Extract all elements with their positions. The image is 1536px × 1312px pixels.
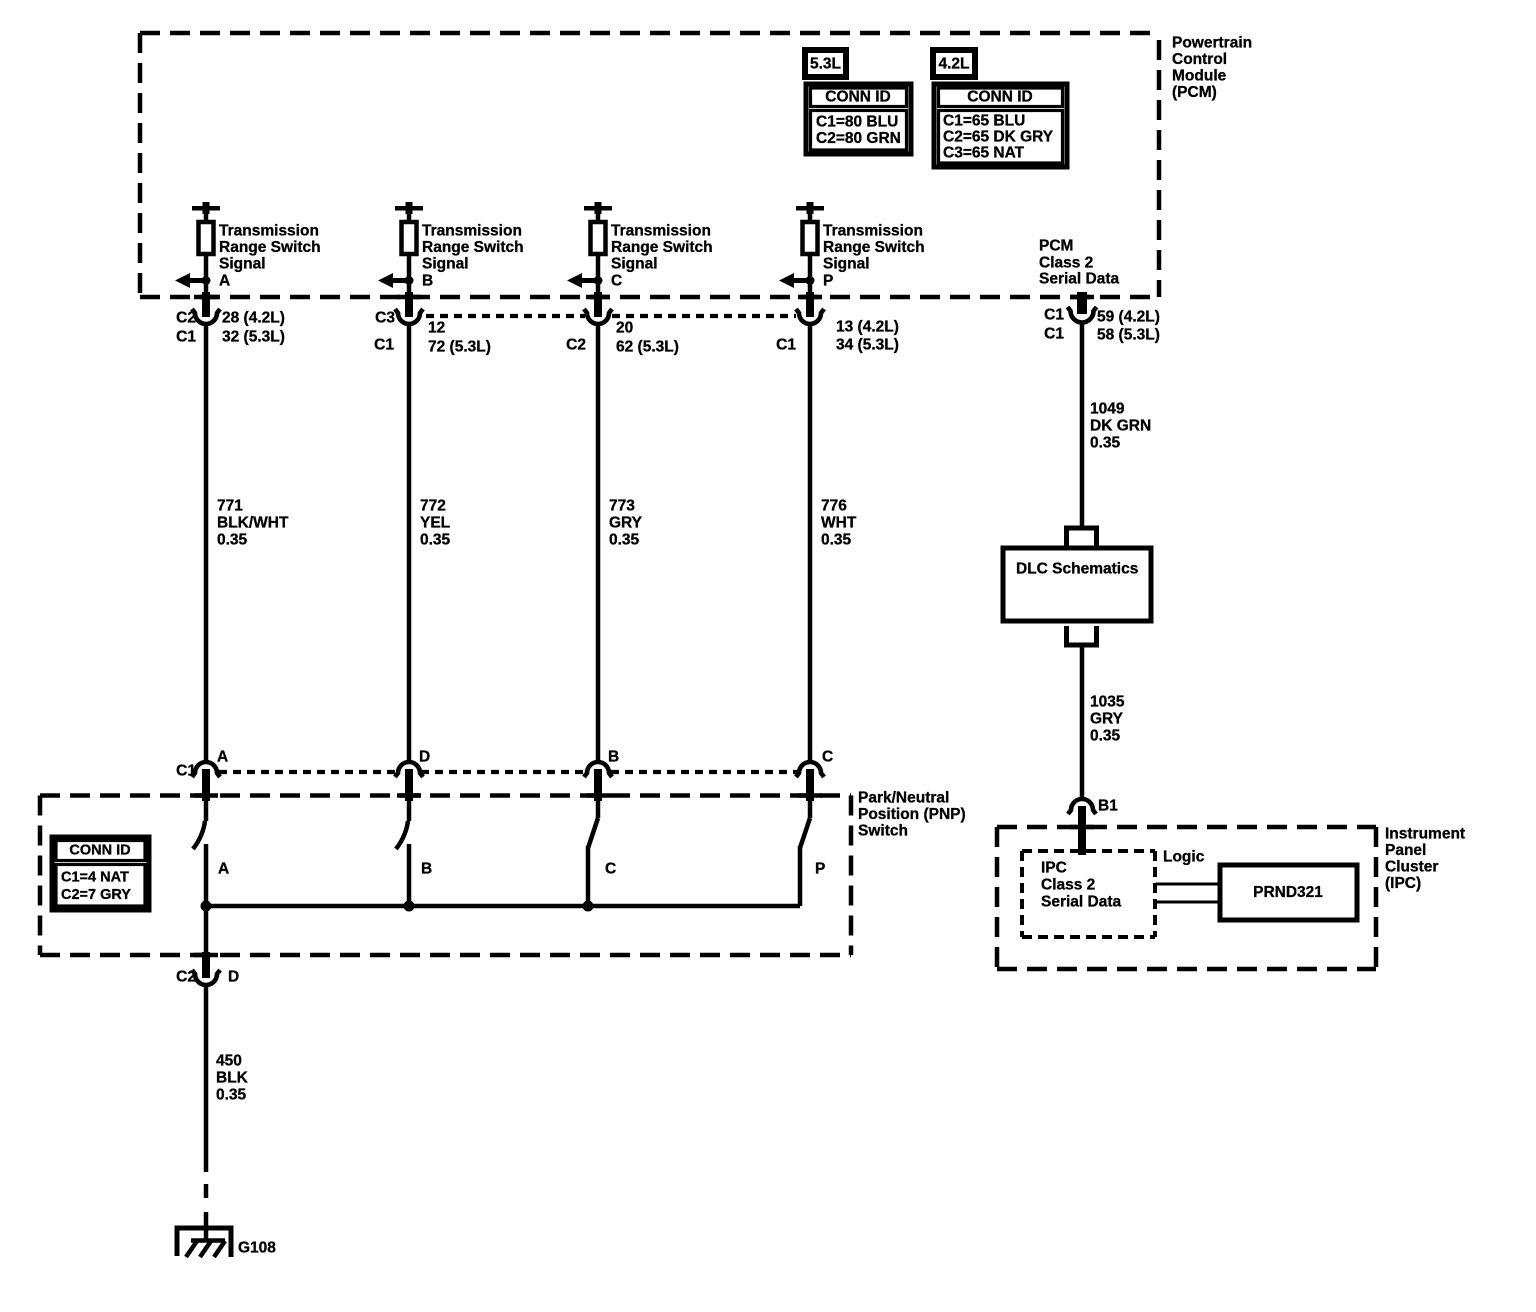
svg-text:0.35: 0.35 — [420, 532, 451, 549]
svg-text:P: P — [815, 861, 825, 878]
svg-text:YEL: YEL — [420, 515, 450, 532]
svg-text:B: B — [608, 749, 619, 766]
svg-text:Powertrain: Powertrain — [1172, 35, 1252, 52]
svg-text:(IPC): (IPC) — [1385, 875, 1421, 892]
svg-text:776: 776 — [821, 498, 847, 515]
svg-text:0.35: 0.35 — [216, 1087, 247, 1104]
svg-text:1049: 1049 — [1090, 401, 1125, 418]
svg-text:C1: C1 — [1044, 326, 1064, 343]
svg-text:A: A — [218, 861, 229, 878]
svg-text:C1: C1 — [1044, 307, 1064, 324]
svg-text:4.2L: 4.2L — [938, 56, 969, 73]
svg-text:C2=7 GRY: C2=7 GRY — [61, 887, 131, 903]
svg-text:Transmission: Transmission — [823, 223, 923, 240]
svg-text:C1: C1 — [176, 329, 196, 346]
svg-text:Class 2: Class 2 — [1041, 877, 1095, 894]
svg-text:PRND321: PRND321 — [1253, 884, 1323, 901]
svg-text:C2=65 DK GRY: C2=65 DK GRY — [943, 129, 1054, 146]
svg-text:62 (5.3L): 62 (5.3L) — [616, 339, 679, 356]
svg-text:A: A — [217, 749, 228, 766]
svg-text:Logic: Logic — [1163, 849, 1205, 866]
svg-text:GRY: GRY — [609, 515, 643, 532]
svg-text:Position (PNP): Position (PNP) — [858, 806, 966, 823]
svg-text:Transmission: Transmission — [611, 223, 711, 240]
svg-text:P: P — [823, 272, 833, 289]
svg-text:C2=80 GRN: C2=80 GRN — [816, 130, 901, 147]
svg-text:Range Switch: Range Switch — [823, 239, 925, 256]
svg-text:WHT: WHT — [821, 515, 857, 532]
svg-text:Range Switch: Range Switch — [611, 239, 713, 256]
svg-text:C: C — [822, 749, 833, 766]
svg-text:Module: Module — [1172, 68, 1227, 85]
svg-text:20: 20 — [616, 320, 633, 337]
svg-text:0.35: 0.35 — [609, 532, 640, 549]
svg-text:Serial Data: Serial Data — [1041, 894, 1122, 911]
svg-text:0.35: 0.35 — [1090, 435, 1121, 452]
svg-text:58 (5.3L): 58 (5.3L) — [1097, 327, 1160, 344]
svg-text:32 (5.3L): 32 (5.3L) — [222, 329, 285, 346]
svg-text:5.3L: 5.3L — [810, 56, 841, 73]
svg-text:13 (4.2L): 13 (4.2L) — [836, 319, 899, 336]
svg-text:0.35: 0.35 — [821, 532, 852, 549]
svg-text:28 (4.2L): 28 (4.2L) — [222, 310, 285, 327]
svg-text:CONN ID: CONN ID — [825, 89, 890, 106]
svg-text:CONN ID: CONN ID — [69, 843, 130, 859]
svg-text:BLK/WHT: BLK/WHT — [217, 515, 289, 532]
svg-text:B: B — [421, 861, 432, 878]
svg-text:D: D — [228, 969, 239, 986]
svg-text:G108: G108 — [238, 1240, 276, 1257]
svg-text:C2: C2 — [176, 310, 196, 327]
svg-text:34 (5.3L): 34 (5.3L) — [836, 337, 899, 354]
svg-text:C1=80 BLU: C1=80 BLU — [816, 114, 898, 131]
svg-text:72 (5.3L): 72 (5.3L) — [428, 339, 491, 356]
svg-text:Signal: Signal — [219, 256, 266, 273]
svg-text:A: A — [219, 272, 230, 289]
svg-text:B: B — [422, 272, 433, 289]
svg-text:Signal: Signal — [823, 256, 870, 273]
svg-text:Park/Neutral: Park/Neutral — [858, 790, 949, 807]
svg-text:C: C — [611, 272, 622, 289]
svg-text:C3: C3 — [375, 310, 395, 327]
svg-text:(PCM): (PCM) — [1172, 84, 1217, 101]
svg-text:0.35: 0.35 — [217, 532, 248, 549]
svg-text:771: 771 — [217, 498, 243, 515]
svg-text:1035: 1035 — [1090, 694, 1125, 711]
svg-text:59 (4.2L): 59 (4.2L) — [1097, 309, 1160, 326]
svg-text:CONN ID: CONN ID — [967, 89, 1032, 106]
svg-text:Control: Control — [1172, 51, 1227, 68]
svg-text:Transmission: Transmission — [219, 223, 319, 240]
svg-text:Instrument: Instrument — [1385, 826, 1465, 843]
svg-text:C1=4 NAT: C1=4 NAT — [61, 870, 129, 886]
svg-text:PCM: PCM — [1039, 238, 1073, 255]
svg-text:Signal: Signal — [422, 256, 469, 273]
svg-text:12: 12 — [428, 320, 445, 337]
svg-text:B1: B1 — [1098, 798, 1118, 815]
svg-text:GRY: GRY — [1090, 711, 1124, 728]
svg-text:C: C — [605, 861, 616, 878]
svg-text:773: 773 — [609, 498, 635, 515]
svg-text:C1: C1 — [374, 337, 394, 354]
svg-text:DLC Schematics: DLC Schematics — [1016, 561, 1138, 578]
svg-text:IPC: IPC — [1041, 860, 1067, 877]
svg-text:450: 450 — [216, 1053, 242, 1070]
svg-text:C3=65 NAT: C3=65 NAT — [943, 145, 1025, 162]
svg-text:Transmission: Transmission — [422, 223, 522, 240]
svg-text:DK GRN: DK GRN — [1090, 418, 1151, 435]
svg-text:C1=65 BLU: C1=65 BLU — [943, 113, 1025, 130]
svg-text:C2: C2 — [176, 969, 196, 986]
svg-text:Class 2: Class 2 — [1039, 255, 1093, 272]
svg-text:Serial Data: Serial Data — [1039, 271, 1120, 288]
svg-text:C2: C2 — [566, 337, 586, 354]
svg-text:Panel: Panel — [1385, 842, 1426, 859]
svg-text:772: 772 — [420, 498, 446, 515]
svg-text:Range Switch: Range Switch — [422, 239, 524, 256]
svg-text:D: D — [419, 749, 430, 766]
svg-text:Signal: Signal — [611, 256, 658, 273]
svg-text:C1: C1 — [776, 337, 796, 354]
svg-text:Range Switch: Range Switch — [219, 239, 321, 256]
svg-text:BLK: BLK — [216, 1070, 249, 1087]
svg-text:0.35: 0.35 — [1090, 728, 1121, 745]
svg-text:C1: C1 — [176, 763, 196, 780]
svg-text:Cluster: Cluster — [1385, 859, 1438, 876]
svg-text:Switch: Switch — [858, 823, 908, 840]
